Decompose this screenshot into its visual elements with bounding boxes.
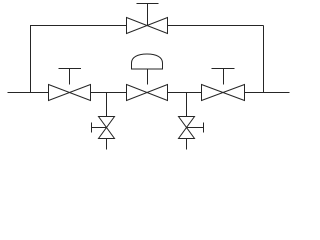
drain valve V5 body (99, 117, 115, 139)
valve V3 (right block valve) body (202, 85, 245, 101)
wire: main line inlet segment (8, 92, 49, 94)
wire: drain 1 drop from main line (106, 93, 108, 117)
valve V1 (left block valve) body (49, 85, 91, 101)
valve V3 stem (223, 69, 225, 85)
wire: bypass top-left horizontal (30, 25, 127, 27)
control valve V2 diaphragm actuator dome (132, 54, 163, 69)
wire: main line between control valve and V3 (168, 92, 202, 94)
drain valve V5 stem (92, 127, 107, 129)
valve V1 handle bar (59, 68, 82, 70)
valve V1 stem (69, 69, 71, 85)
wire: bypass top-right horizontal (168, 25, 264, 27)
drain valve V6 handle bar (203, 123, 205, 133)
wire: main line outlet segment (245, 92, 290, 94)
drain valve V6 stem (187, 127, 204, 129)
wire: bypass right riser (263, 26, 265, 93)
wire: drain 2 drop from main line (186, 93, 188, 117)
valve V4 stem (147, 4, 149, 26)
valve V4 handle bar (137, 3, 159, 5)
drain valve V5 handle bar (91, 123, 93, 133)
wire: main line between V1 and control valve (91, 92, 127, 94)
wire: bypass left riser (30, 26, 32, 93)
wire: drain 1 outlet stub (106, 139, 108, 150)
valve V3 handle bar (212, 68, 235, 70)
valve V4 (bypass gate valve) body (127, 18, 168, 34)
wire: drain 2 outlet stub (186, 139, 188, 150)
drain valve V6 body (179, 117, 195, 139)
control valve V2 body (127, 85, 168, 101)
control valve V2 actuator stem (147, 69, 149, 85)
